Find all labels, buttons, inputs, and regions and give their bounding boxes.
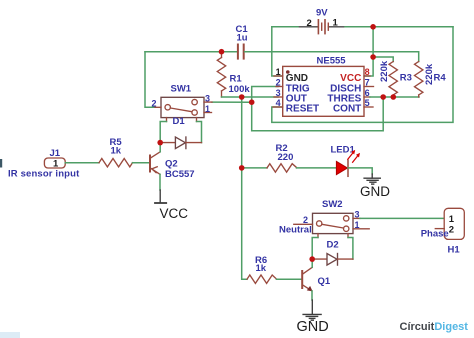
node junction TRIG / SW1 pin3: [249, 99, 255, 105]
svg-text:4: 4: [276, 98, 281, 108]
svg-text:2: 2: [303, 215, 308, 225]
svg-text:R1: R1: [230, 74, 243, 85]
wire Q2 emitter down to VCC: [159, 174, 161, 190]
U1 pin stub 2: [276, 86, 283, 88]
resistor R4: [415, 62, 423, 98]
svg-text:D1: D1: [173, 116, 186, 127]
svg-text:220k: 220k: [379, 60, 390, 82]
svg-text:5: 5: [365, 98, 370, 108]
svg-text:3: 3: [205, 93, 210, 103]
svg-text:6: 6: [365, 88, 370, 98]
wire R2 to LED1: [297, 167, 337, 169]
svg-text:220: 220: [278, 152, 294, 163]
wire Q2 collector to D1 node: [159, 143, 161, 152]
wire SW2 left stub down to D2 anode node: [312, 238, 318, 260]
wire SW1 right stub to D1 cathode: [197, 122, 202, 143]
svg-text:2: 2: [307, 18, 312, 29]
wire VCC column down to 555 pin 8: [364, 27, 373, 76]
resistor R5: [99, 159, 133, 167]
wire SW2 right stub down to D2 cathode: [348, 238, 353, 260]
wire right edge down (VCC to RESET loop): [272, 27, 453, 123]
op-amp timer U1 NE555 body: [283, 66, 364, 116]
svg-text:IR sensor input: IR sensor input: [8, 169, 80, 180]
wire R1 bottom / OUT row: [222, 96, 279, 98]
node junction D2 anode / Q1 collector: [309, 256, 315, 262]
svg-text:3: 3: [355, 210, 360, 220]
wire R6 to Q1 base: [277, 278, 302, 280]
svg-text:7: 7: [365, 77, 370, 87]
SW2 bottom stub left: [317, 234, 319, 238]
node junction D1 anode / Q2 collector: [157, 140, 163, 146]
battery BAT 9V: [298, 20, 345, 34]
diode D2: [312, 254, 353, 266]
wire THRES row to R3 R4 bottoms: [370, 96, 419, 98]
svg-text:1k: 1k: [111, 146, 122, 157]
svg-text:CírcuitDigest: CírcuitDigest: [400, 321, 469, 333]
node junction OUT to R2: [239, 165, 245, 171]
svg-text:1: 1: [205, 104, 210, 114]
svg-text:Phase: Phase: [421, 229, 449, 240]
svg-text:SW2: SW2: [322, 199, 343, 210]
wire OUT node to R2: [242, 167, 267, 169]
transistor Q1 (NPN): [302, 267, 312, 291]
svg-text:D2: D2: [327, 239, 339, 250]
diode D1: [160, 137, 201, 149]
wire down-column to SW1 pin2: [145, 52, 155, 108]
wire VCC dot to R3 top: [373, 57, 393, 62]
wire J1 to R5: [65, 162, 99, 164]
svg-text:9V: 9V: [316, 8, 328, 19]
resistor R3: [389, 62, 397, 98]
wire SW2 pin3 to H1 pin 1: [360, 217, 444, 219]
node junction C1/R1/SW1: [219, 49, 225, 55]
svg-text:Q1: Q1: [318, 276, 331, 287]
wire battery minus to left column: [272, 26, 298, 28]
wire R5 to Q2 base: [133, 162, 150, 164]
SW2 bottom stub right: [347, 234, 349, 238]
svg-text:NE555: NE555: [317, 56, 347, 67]
svg-text:100k: 100k: [229, 84, 251, 95]
svg-text:1: 1: [355, 220, 360, 230]
SW1 pin stub 2: [155, 106, 161, 108]
svg-text:1u: 1u: [237, 33, 248, 44]
wire OUT column down to R6: [242, 97, 247, 279]
SW1 pin stub 3: [204, 101, 212, 103]
wire Q1 emitter down to GND: [311, 291, 313, 300]
wire TRIG link: pin2 to dot2 down and across to THRES column: [252, 87, 384, 131]
node junction VCC / R3 rail: [370, 54, 376, 60]
wire C1 right to R4 top corner: [245, 52, 419, 62]
svg-text:VCC: VCC: [160, 206, 189, 221]
SW2 pin stub 2 (Neutral, dead end): [294, 223, 313, 225]
logo CircuitDigest: [400, 321, 469, 333]
U1 pin stub 3: [274, 96, 283, 98]
artifact bottom-left smudge: [0, 332, 20, 338]
ground GND (Q1): [303, 300, 321, 320]
switch SW2: [313, 213, 354, 233]
H1 pin stub 2 (Phase, dead end): [435, 228, 444, 230]
svg-text:R3: R3: [400, 73, 412, 84]
SW1 pin stub 1 (dead end): [204, 112, 212, 114]
SW1 bottom stub left: [166, 118, 168, 122]
svg-text:Q2: Q2: [165, 159, 178, 170]
U1 pin stub 4: [273, 106, 283, 108]
svg-text:CONT: CONT: [333, 104, 361, 115]
capacitor C1: [238, 45, 244, 59]
power VCC symbol: [155, 190, 166, 203]
svg-text:2: 2: [276, 77, 281, 87]
transistor Q2 (PNP): [150, 152, 160, 175]
wire Q1 collector up to D2 node: [311, 259, 313, 267]
resistor R2: [267, 164, 297, 172]
svg-text:3: 3: [276, 88, 281, 98]
SW2 pin stub 1 (dead end): [353, 228, 369, 230]
svg-text:1k: 1k: [256, 263, 267, 274]
svg-text:GND: GND: [297, 319, 329, 335]
wire LED1 cathode to GND: [348, 168, 372, 174]
node junction battery plus: [370, 24, 376, 30]
wire left column down to 555 pin 1 (GND): [272, 27, 283, 76]
ground GND (LED): [364, 174, 380, 184]
artifact left edge bar: [0, 159, 2, 168]
svg-text:BC557: BC557: [165, 169, 195, 180]
svg-text:2: 2: [449, 224, 454, 235]
SW1 bottom stub right: [196, 118, 198, 122]
svg-text:RESET: RESET: [286, 104, 319, 115]
resistor R6: [247, 275, 277, 283]
SW2 pin stub 3: [353, 217, 360, 219]
svg-text:Neutral: Neutral: [279, 225, 312, 236]
node junction OUT: [239, 94, 245, 100]
LED LED1: [336, 150, 360, 176]
svg-text:1: 1: [276, 67, 281, 77]
svg-text:SW1: SW1: [171, 84, 192, 95]
svg-text:GND: GND: [360, 184, 390, 199]
node junction R3 bottom: [391, 94, 397, 100]
switch SW1: [161, 97, 204, 117]
wire SW1 left stub to D1 anode node: [160, 122, 166, 143]
wire battery plus to right corner: [345, 26, 453, 28]
wire top rail C1 row to R4: [145, 51, 237, 53]
U1 pin stub 1: [274, 75, 283, 77]
svg-text:H1: H1: [448, 245, 461, 256]
node junction THRES column: [380, 94, 386, 100]
svg-text:2: 2: [152, 99, 157, 109]
connector J1: [44, 158, 65, 170]
connector H1: [444, 208, 464, 239]
wire SW1 pin 3 to TRIG column: [212, 101, 252, 103]
U1 pin stub 5 (dead end): [364, 106, 373, 108]
svg-text:R4: R4: [434, 73, 447, 84]
svg-text:1: 1: [333, 18, 339, 29]
U1 pin stub 8: [364, 75, 370, 77]
U1 pin stub 6: [364, 96, 370, 98]
svg-text:1: 1: [449, 214, 455, 225]
svg-text:8: 8: [365, 67, 370, 77]
resistor R1: [217, 52, 225, 97]
U1 pin stub 7 (dead end): [364, 86, 374, 88]
